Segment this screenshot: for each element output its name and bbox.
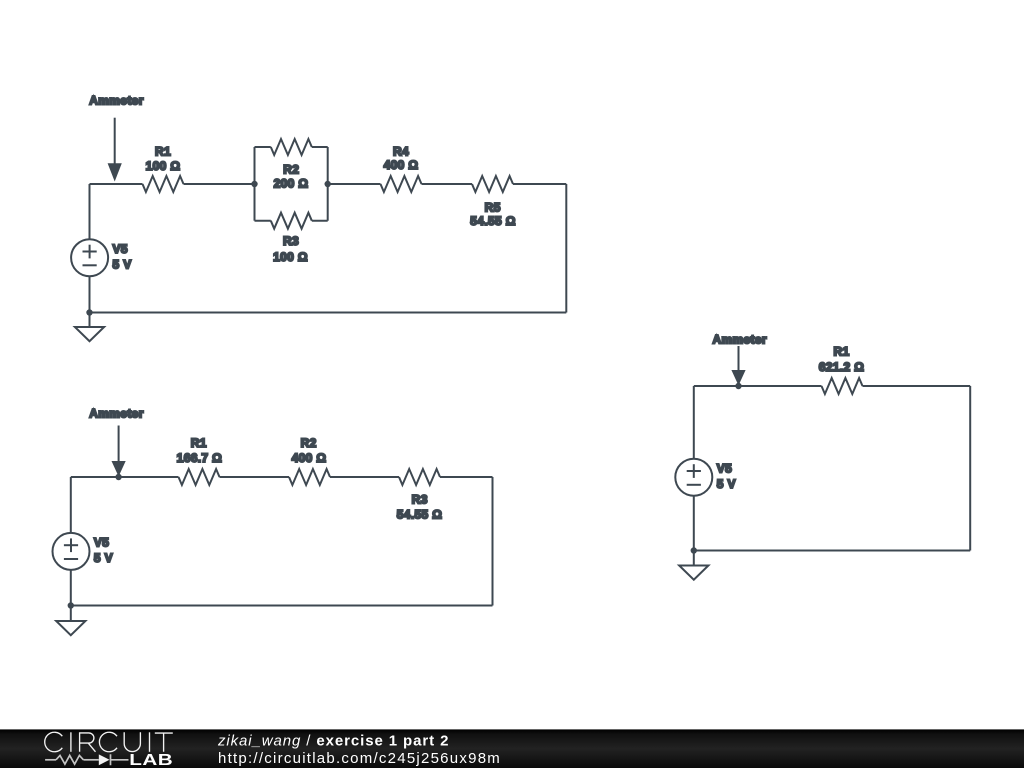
wire top-left segment circuit 1 xyxy=(90,183,143,185)
wire left vertical upper circuit 1 xyxy=(89,184,91,239)
wire left vertical lower circuit 3 xyxy=(693,496,695,566)
svg-text:400 Ω: 400 Ω xyxy=(292,451,327,465)
wire R1 to R2 circuit 2 xyxy=(220,476,290,478)
svg-text:54.55 Ω: 54.55 Ω xyxy=(397,507,442,521)
ammeter arrow circuit 1 xyxy=(108,118,122,182)
resistor R1 circuit 1 xyxy=(143,176,184,192)
resistor R3 circuit 1 xyxy=(271,213,312,229)
svg-text:V5: V5 xyxy=(113,242,128,256)
wire right vertical circuit 1 xyxy=(565,184,567,313)
svg-text:400 Ω: 400 Ω xyxy=(384,158,419,172)
svg-text:166.7 Ω: 166.7 Ω xyxy=(177,451,222,465)
node ammeter junction dot circuit 2 xyxy=(115,474,121,480)
svg-text:5 V: 5 V xyxy=(717,477,736,491)
svg-text:R1: R1 xyxy=(191,436,207,450)
resistor R5 circuit 1 xyxy=(472,176,513,192)
wire right vertical circuit 3 xyxy=(969,386,971,551)
svg-text:R2: R2 xyxy=(301,436,317,450)
wire top branch right stub xyxy=(312,146,328,148)
resistor R1 circuit 2 xyxy=(179,469,220,485)
logo letter R xyxy=(80,733,96,752)
svg-text:R3: R3 xyxy=(412,492,428,506)
wire R5 to right corner xyxy=(513,183,566,185)
label R1 xyxy=(146,144,181,173)
svg-text:200 Ω: 200 Ω xyxy=(274,177,309,191)
svg-text:100 Ω: 100 Ω xyxy=(273,250,308,264)
logo letter C2 xyxy=(99,732,117,752)
logo letter U xyxy=(124,732,140,751)
wire bottom branch left stub xyxy=(255,220,271,222)
label R5 xyxy=(470,201,515,229)
wire right vertical circuit 2 xyxy=(492,477,494,606)
svg-text:R1: R1 xyxy=(155,144,171,158)
wire R2 to R3 circuit 2 xyxy=(330,476,399,478)
resistor R1 circuit 3 xyxy=(822,378,863,394)
resistor R2 circuit 2 xyxy=(289,469,330,485)
voltage source V5 circuit 2 xyxy=(53,533,90,570)
logo wire middle xyxy=(83,759,98,761)
ammeter arrow circuit 3 xyxy=(731,346,745,386)
wire bottom circuit 2 xyxy=(71,605,493,607)
node ground junction dot circuit 2 xyxy=(68,602,74,608)
wire bottom circuit 1 xyxy=(90,312,567,314)
footer bar xyxy=(0,729,1024,768)
label R4 xyxy=(384,144,419,172)
wire R1 to parallel box xyxy=(184,183,255,185)
label R3 xyxy=(273,234,308,264)
wire left vertical lower circuit 2 xyxy=(70,570,72,621)
wire top-left segment circuit 3 xyxy=(694,385,822,387)
svg-text:V5: V5 xyxy=(717,462,732,476)
wire left vertical upper circuit 3 xyxy=(693,386,695,459)
logo letter I xyxy=(70,732,72,752)
ground circuit 3 xyxy=(679,566,708,580)
svg-text:R3: R3 xyxy=(283,234,299,248)
ground circuit 1 xyxy=(75,327,104,341)
wire parallel box right vertical xyxy=(327,147,329,221)
svg-text:Ammeter: Ammeter xyxy=(89,407,143,421)
node ground junction dot circuit 1 xyxy=(86,309,92,315)
svg-text:V5: V5 xyxy=(94,536,109,550)
label R1 circuit 2 xyxy=(177,436,222,465)
svg-text:100 Ω: 100 Ω xyxy=(146,159,181,173)
node right junction dot xyxy=(325,181,331,187)
ground circuit 2 xyxy=(56,621,85,635)
svg-text:54.55 Ω: 54.55 Ω xyxy=(470,214,515,228)
logo letter I2 xyxy=(149,732,151,752)
wire left vertical lower circuit 1 xyxy=(89,276,91,327)
label R1 circuit 3 xyxy=(819,345,864,375)
label V5 circuit 1 xyxy=(113,242,132,271)
wire R1 to right corner circuit 3 xyxy=(863,385,971,387)
label R2 xyxy=(274,162,309,190)
wire top-left segment circuit 2 xyxy=(71,476,179,478)
wire parallel box left vertical xyxy=(254,147,256,221)
logo letter C xyxy=(45,732,63,752)
logo letter T xyxy=(155,733,173,752)
logo diode bar and wire right xyxy=(111,754,129,765)
svg-text:5 V: 5 V xyxy=(113,257,132,271)
voltage source V5 circuit 3 xyxy=(675,459,712,496)
label V5 circuit 3 xyxy=(717,462,736,491)
logo resistor zigzag xyxy=(56,755,83,764)
voltage source V5 circuit 1 xyxy=(71,239,108,276)
svg-text:R4: R4 xyxy=(393,144,409,158)
logo diode triangle xyxy=(99,754,110,765)
node ground junction dot circuit 3 xyxy=(691,547,697,553)
svg-text:621.2 Ω: 621.2 Ω xyxy=(819,360,864,374)
wire R3 to right corner circuit 2 xyxy=(440,476,493,478)
wire bottom branch right stub xyxy=(312,220,328,222)
svg-text:5 V: 5 V xyxy=(94,551,113,565)
label R2 circuit 2 xyxy=(292,436,327,465)
svg-text:Ammeter: Ammeter xyxy=(712,333,766,347)
wire R4 to R5 xyxy=(422,183,473,185)
svg-text:http://circuitlab.com/c245j256: http://circuitlab.com/c245j256ux98m xyxy=(218,750,501,767)
svg-text:R5: R5 xyxy=(485,201,501,215)
svg-text:R2: R2 xyxy=(283,162,299,176)
svg-text:Ammeter: Ammeter xyxy=(89,94,143,108)
wire left vertical upper circuit 2 xyxy=(70,477,72,533)
ammeter arrow circuit 2 xyxy=(112,426,126,477)
logo wire left xyxy=(45,759,56,761)
label V5 circuit 2 xyxy=(94,536,113,565)
resistor R3 circuit 2 xyxy=(399,469,440,485)
resistor R4 circuit 1 xyxy=(381,176,422,192)
wire top branch left stub xyxy=(255,146,271,148)
label R3 circuit 2 xyxy=(397,492,442,521)
node ammeter junction dot circuit 3 xyxy=(735,383,741,389)
wire parallel box to R4 xyxy=(328,183,381,185)
svg-text:R1: R1 xyxy=(833,345,849,359)
resistor R2 circuit 1 xyxy=(271,139,312,155)
node left junction dot xyxy=(251,181,257,187)
svg-text:LAB: LAB xyxy=(129,752,173,768)
wire bottom circuit 3 xyxy=(694,550,970,552)
svg-text:zikai_wang / exercise 1 part 2: zikai_wang / exercise 1 part 2 xyxy=(217,732,449,749)
